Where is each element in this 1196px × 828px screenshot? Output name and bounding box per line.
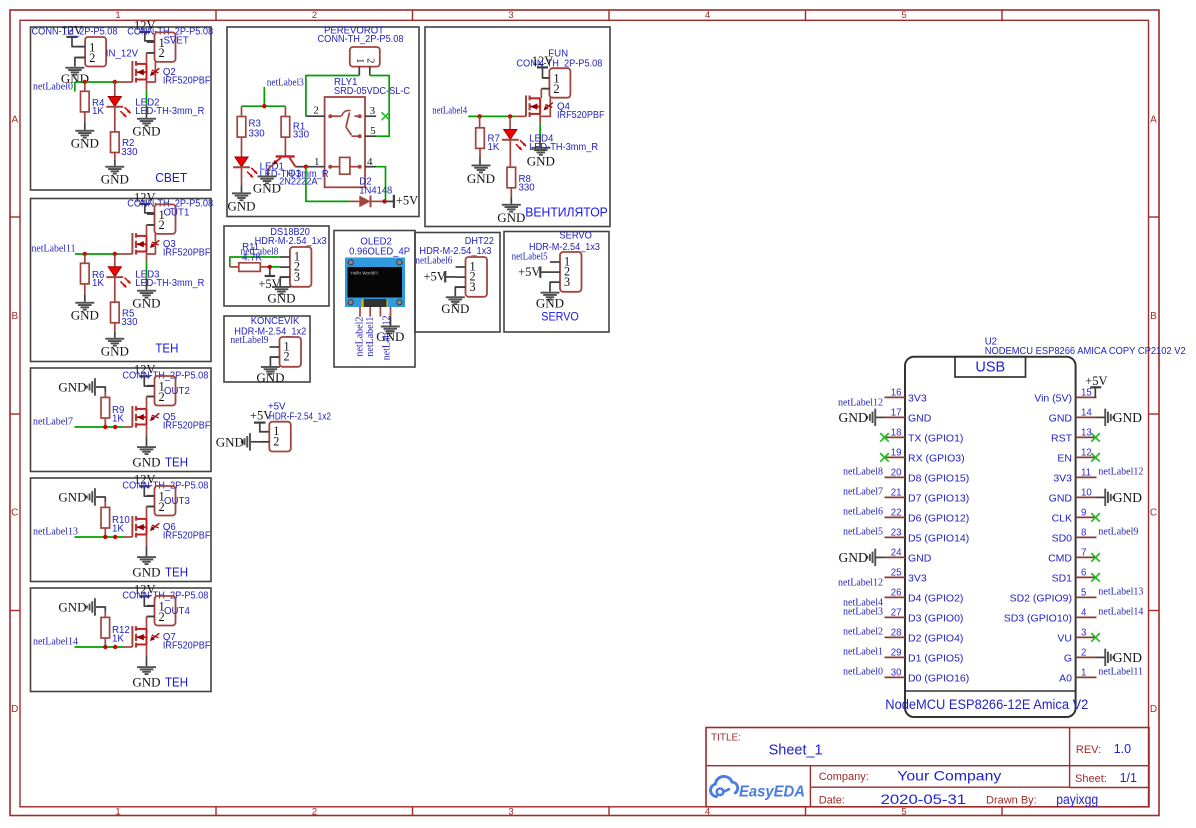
svg-text:D2 (GPIO4): D2 (GPIO4) [908,632,963,644]
svg-text:1K: 1K [112,414,124,425]
title block [706,728,1149,807]
wire netLabel11 gate [75,253,120,255]
svg-text:IRF520PBF: IRF520PBF [163,421,211,432]
ground GND (IN_12V pin2) [75,58,85,67]
svg-text:ТЕН: ТЕН [165,565,188,580]
svg-text:GND: GND [58,600,86,615]
svg-text:GND: GND [376,329,404,344]
svg-text:+5V: +5V [1085,374,1107,388]
wire netLabel13 gate [75,536,125,538]
wire Q5 source to GND [146,425,148,437]
junction wire [113,425,117,429]
svg-text:330: 330 [249,129,266,140]
pin 23 D5 (GPIO14) (U2 left) [885,536,906,538]
svg-text:2: 2 [553,82,559,96]
svg-text:СВЕТ: СВЕТ [155,170,187,185]
svg-text:D: D [11,704,18,715]
svg-text:2: 2 [159,46,165,60]
svg-text:11: 11 [1081,468,1091,479]
wire GND to R10 [96,497,105,502]
no-connect U2 pin 13 [1091,433,1100,442]
transistor Q7 IRF520PBF [131,626,133,647]
svg-text:netLabel9: netLabel9 [231,335,269,346]
wire OLED pin1 [359,307,361,317]
svg-text:netLabel12: netLabel12 [838,398,883,409]
svg-text:1K: 1K [112,634,124,645]
wire R10 to gate [104,528,106,537]
svg-text:5: 5 [901,10,906,21]
resistor R7 1K [479,116,481,127]
block TEN1 border [31,199,212,362]
pin 1 A0 (U2 right) [1076,676,1097,678]
wire pin3 to GND [454,287,456,296]
svg-text:RX (GPIO3): RX (GPIO3) [908,452,965,464]
junction relay pin1 [304,165,308,169]
svg-text:netLabel14: netLabel14 [33,637,78,648]
svg-text:GND: GND [132,295,160,310]
svg-text:25: 25 [891,568,902,579]
svg-text:IRF520PBF: IRF520PBF [163,76,211,87]
transistor Q2 IRF520PBF [131,61,133,82]
svg-text:GND: GND [101,171,129,186]
wire pin2 to Q5 drain [147,396,155,398]
svg-text:GND: GND [132,455,160,470]
block TEN2 border [31,368,212,472]
svg-text:26: 26 [891,588,902,599]
wire OLED pin4 to GND [390,307,392,317]
svg-text:NODEMCU ESP8266 AMICA COPY CP2: NODEMCU ESP8266 AMICA COPY CP2102 V2 [985,346,1186,357]
ground GND (Q2 source) [137,118,156,120]
svg-text:D5 (GPIO14): D5 (GPIO14) [908,532,969,544]
svg-text:1K: 1K [112,524,124,535]
svg-text:4: 4 [705,807,710,818]
svg-text:2: 2 [1081,648,1086,659]
svg-text:8: 8 [1081,528,1086,539]
resistor R12 1K [101,617,110,638]
junction D2 +5V [382,199,386,203]
block DS18B20 border [224,226,329,306]
wire relay pin4 to +5V [376,167,385,202]
svg-text:17: 17 [891,408,902,419]
svg-text:netLabel1: netLabel1 [843,647,883,658]
svg-text:SRD-05VDC-SL-C: SRD-05VDC-SL-C [334,86,410,97]
svg-text:3: 3 [508,10,513,21]
svg-text:GND: GND [908,552,932,564]
svg-text:SD2 (GPIO9): SD2 (GPIO9) [1010,592,1072,604]
svg-text:GND: GND [1049,412,1073,424]
svg-text:GND: GND [839,550,868,565]
ground GND (U2 pin 2) [1097,656,1106,658]
svg-text:ТЕН: ТЕН [165,675,188,690]
svg-text:netLabel12: netLabel12 [1098,467,1143,478]
svg-text:28: 28 [891,628,902,639]
svg-text:OUT3: OUT3 [164,496,190,507]
svg-text:IN_12V: IN_12V [106,49,139,60]
svg-text:SD0: SD0 [1052,532,1073,544]
svg-text:netLabel7: netLabel7 [843,487,883,498]
svg-text:SD1: SD1 [1052,572,1073,584]
led LED3 LED-TH-3mm_R [114,254,116,267]
pin 9 CLK (U2 right) [1076,516,1097,518]
svg-text:GND: GND [527,154,555,169]
ground GND (power header) [249,433,251,451]
wire pin2 to GND (power header) [251,441,269,443]
svg-text:7: 7 [1081,548,1086,559]
no-connect U2 pin 18 [880,433,889,442]
svg-text:VU: VU [1057,632,1072,644]
svg-text:29: 29 [891,648,902,659]
svg-text:20: 20 [891,468,902,479]
no-connect U2 pin 7 [1091,553,1100,562]
junction wire [113,535,117,539]
svg-text:IRF520PBF: IRF520PBF [163,248,211,259]
pin 26 D4 (GPIO2) (U2 left) [885,596,906,598]
svg-text:KONCEVIK: KONCEVIK [251,316,300,327]
svg-text:ТЕН: ТЕН [165,455,188,470]
svg-text:CONN-TH_2P-P5.08: CONN-TH_2P-P5.08 [32,27,118,38]
svg-text:netLabel4: netLabel4 [432,106,467,117]
pin 18 TX (GPIO1) (U2 left) [885,436,906,438]
svg-text:GND: GND [132,123,160,138]
svg-text:HDR-M-2.54_1x3: HDR-M-2.54_1x3 [255,236,327,247]
svg-text:RST: RST [1051,432,1073,444]
svg-text:1.0: 1.0 [1114,742,1131,756]
junction netLabel3 [262,104,266,108]
svg-text:1: 1 [115,807,120,818]
wire R12 to gate [104,638,106,647]
ground GND (KONCEVIK) [261,366,280,368]
junction at LED4 [508,114,512,118]
ground GND (Q4 source) [531,147,550,149]
svg-text:4.7K: 4.7K [242,253,262,264]
led LED2 LED-TH-3mm_R [114,82,116,97]
svg-text:netLabel13: netLabel13 [33,527,78,538]
wire pin2 to GND [270,357,279,366]
wire netLabel7 gate [75,426,125,428]
ground GND (U2 pin 10) [1097,496,1106,498]
wire Q2 source to GND [146,80,148,90]
label USB [955,357,1026,377]
svg-text:GND: GND [267,291,295,306]
svg-text:4: 4 [1081,608,1087,619]
svg-text:IRF520PBF: IRF520PBF [163,641,211,652]
wire OLED pin3 [379,307,381,317]
svg-text:NodeMCU ESP8266-12E Amica V2: NodeMCU ESP8266-12E Amica V2 [885,697,1088,712]
svg-text:R11: R11 [242,242,259,253]
ground GND (R10 top) [94,488,96,506]
wire Q4 source to GND [539,114,541,124]
pin 4 SD3 (GPIO10) (U2 right) [1076,616,1097,618]
svg-text:D: D [1150,704,1157,715]
svg-text:1K: 1K [488,142,500,153]
wire LED1 to GND [241,167,243,186]
pin 11 3V3 (U2 right) [1076,476,1097,478]
svg-text:2: 2 [313,105,319,117]
ground GND (Q7 source) [137,666,156,668]
svg-text:netLabel3: netLabel3 [843,607,883,618]
svg-text:1: 1 [1081,668,1086,679]
svg-text:D4 (GPIO2): D4 (GPIO2) [908,592,963,604]
svg-text:netLabel5: netLabel5 [843,527,883,538]
ground GND (R4) [75,130,94,132]
svg-text:netLabel2: netLabel2 [843,627,883,638]
resistor R10 1K [101,507,110,528]
svg-text:22: 22 [891,508,902,519]
block TEN3 border [31,478,212,582]
pin 8 SD0 (U2 right) [1076,536,1097,538]
power flag +5V (DS18B20) [269,267,271,275]
junction at resistor [103,535,107,539]
svg-text:15: 15 [1081,388,1092,399]
transistor Q4 IRF520PBF [525,95,527,116]
svg-text:OUT2: OUT2 [164,386,190,397]
svg-text:A: A [11,115,18,126]
svg-text:netLabel11: netLabel11 [32,244,76,255]
svg-text:5: 5 [1081,588,1086,599]
ground GND (R6) [75,302,94,304]
resistor R1 330 [284,106,286,116]
wire R9 to gate [104,418,106,427]
svg-text:GND: GND [227,199,255,214]
ground GND (R12 top) [94,598,96,616]
svg-text:14: 14 [1081,408,1092,419]
wire R3 R1 top [242,105,286,107]
pin 3 VU (U2 right) [1076,636,1097,638]
svg-text:SVET: SVET [164,36,189,47]
wire R2 to GND [114,153,116,160]
ground GND (R5) [105,338,124,340]
wire pin2 to Q4 drain [541,88,549,90]
block TEN4 border [31,588,212,692]
ground GND (R7) [472,165,491,167]
resistor R2 330 [114,107,116,132]
ground GND (Q1 emitter) [258,176,277,178]
power flag +5V (U2 Vin) [1094,387,1096,397]
svg-text:TITLE:: TITLE: [711,733,741,744]
wire pin2 to Q2 drain [147,52,155,54]
svg-text:G: G [1064,652,1072,664]
transistor Q5 IRF520PBF [131,406,133,427]
svg-text:SERVO: SERVO [541,312,579,324]
svg-text:23: 23 [891,528,902,539]
svg-text:30: 30 [891,668,902,679]
ground GND (LED1) [232,192,251,194]
wire pin3 to GND [550,282,560,292]
junction at R6 [83,252,87,256]
svg-text:C: C [11,508,18,519]
svg-text:GND: GND [1113,650,1142,665]
svg-text:Hello World!!!: Hello World!!! [351,270,379,275]
svg-text:4: 4 [705,10,710,21]
svg-text:TX (GPIO1): TX (GPIO1) [908,432,963,444]
no-connect relay pin3 [382,112,390,120]
svg-text:GND: GND [132,675,160,690]
svg-text:2: 2 [364,58,375,63]
wire Q3 source to GND [146,252,148,262]
junction at R4 [83,80,87,84]
pin 24 GND (U2 left) [885,556,906,558]
junction +5V DS18B20 [268,265,272,269]
wire GND to R9 [96,387,105,392]
svg-text:ТЕН: ТЕН [155,340,178,355]
svg-text:19: 19 [891,448,902,459]
svg-text:5: 5 [901,807,906,818]
svg-text:CLK: CLK [1052,512,1072,524]
pin 6 SD1 (U2 right) [1076,576,1097,578]
svg-text:330: 330 [121,147,138,158]
no-connect U2 pin 19 [880,453,889,462]
svg-text:A0: A0 [1059,672,1072,684]
svg-text:OUT4: OUT4 [164,606,190,617]
block KONCEVIK border [224,316,310,382]
pin 19 RX (GPIO3) (U2 left) [885,456,906,458]
pin 2 G (U2 right) [1076,656,1097,658]
svg-text:9: 9 [1081,508,1086,519]
svg-text:+5V: +5V [424,269,446,283]
svg-text:GND: GND [839,410,868,425]
svg-text:D1 (GPIO5): D1 (GPIO5) [908,652,963,664]
svg-text:netLabel11: netLabel11 [1098,667,1143,678]
svg-text:netLabel5: netLabel5 [512,252,548,263]
svg-text:+5V: +5V [250,409,272,423]
svg-text:3V3: 3V3 [908,572,927,584]
svg-text:2: 2 [273,434,279,448]
svg-text:27: 27 [891,608,902,619]
svg-text:Sheet_1: Sheet_1 [769,743,823,759]
wire pin2 to Q3 drain [147,224,155,226]
svg-text:330: 330 [121,317,138,328]
svg-text:3V3: 3V3 [908,392,927,404]
svg-text:GND: GND [908,412,932,424]
svg-text:1: 1 [115,10,120,21]
svg-text:netLabel1: netLabel1 [365,317,376,357]
wire R7 to GND [479,148,481,157]
svg-text:18: 18 [891,428,902,439]
svg-text:Your Company: Your Company [897,768,1001,784]
resistor R4 1K [84,82,86,91]
pin 29 D1 (GPIO5) (U2 left) [885,656,906,658]
svg-text:2: 2 [159,218,165,232]
ground GND (R2) [105,166,124,168]
svg-text:netLabel7: netLabel7 [33,417,73,428]
wire conn pin2 to relay pin5 [370,76,389,137]
svg-text:netLabel9: netLabel9 [1098,527,1138,538]
ground GND (SERVO) [541,292,560,294]
pin 30 D0 (GPIO16) (U2 left) [885,676,906,678]
wire pin3 to GND [280,277,290,286]
svg-text:3: 3 [564,275,570,289]
svg-text:1N4148: 1N4148 [359,186,392,197]
svg-text:GND: GND [467,171,495,186]
svg-text:A: A [1150,115,1157,126]
ground GND (OLED) [381,326,400,328]
svg-text:GND: GND [1113,490,1142,505]
svg-text:D3 (GPIO0): D3 (GPIO0) [908,612,963,624]
svg-text:Sheet:: Sheet: [1075,773,1107,785]
wire OLED pin2 [369,307,371,317]
svg-text:SD3 (GPIO10): SD3 (GPIO10) [1004,612,1072,624]
logo EasyEDA [711,776,738,796]
wire pin1 loop to R11 [230,257,280,267]
wire GND to R12 [96,607,105,612]
wire Q1 collector to relay pin1 [295,166,306,168]
svg-text:D6 (GPIO12): D6 (GPIO12) [908,512,969,524]
svg-text:D0 (GPIO16): D0 (GPIO16) [908,672,969,684]
svg-text:B: B [11,311,18,322]
ground GND (U2 pin 24) [875,556,884,558]
svg-text:3: 3 [370,105,376,117]
no-connect U2 pin 12 [1091,453,1100,462]
ground GND (Q5 source) [137,446,156,448]
svg-text:2: 2 [312,807,317,818]
wire Q1 emitter to GND [267,169,269,176]
svg-text:netLabel12: netLabel12 [838,578,883,589]
junction at R7 [477,114,481,118]
svg-text:Drawn By:: Drawn By: [986,794,1037,806]
svg-text:GND: GND [441,301,469,316]
svg-text:24: 24 [891,548,902,559]
wire R4 to GND [84,112,86,122]
transistor Q6 IRF520PBF [131,516,133,537]
svg-text:EasyEDA: EasyEDA [739,784,805,801]
svg-text:C: C [1150,508,1157,519]
junction at LED2 [113,80,117,84]
pin 5 SD2 (GPIO9) (U2 right) [1076,596,1097,598]
ground GND (U2 pin 14) [1097,416,1106,418]
wire R11 to pin2 [270,266,280,268]
transistor Q3 IRF520PBF [131,233,133,254]
svg-text:GND: GND [58,380,86,395]
ground GND (Q3 source) [137,290,156,292]
svg-text:5: 5 [370,125,376,137]
ground GND (U2 pin 17) [875,416,884,418]
net netLabel3 [263,87,265,106]
svg-text:GND: GND [101,343,129,358]
resistor R8 330 [509,140,511,167]
svg-text:2N2222A: 2N2222A [279,177,318,188]
transistor Q1 2N2222A [284,137,286,155]
pin 12 EN (U2 right) [1076,456,1097,458]
svg-text:netLabel3: netLabel3 [267,78,304,89]
svg-text:+5V: +5V [396,194,418,208]
svg-text:GND: GND [71,307,99,322]
svg-text:EN: EN [1057,452,1072,464]
svg-text:GND: GND [256,370,284,385]
svg-text:6: 6 [1081,568,1086,579]
svg-text:0.96OLED_4P: 0.96OLED_4P [349,247,410,258]
wire pin2 to Q7 drain [147,616,155,618]
wire pin2 to Q6 drain [147,506,155,508]
pin 13 RST (U2 right) [1076,436,1097,438]
diode D2 1N4148 [359,196,370,208]
svg-text:3: 3 [294,270,300,284]
svg-text:1K: 1K [92,106,104,117]
svg-text:GND: GND [1049,492,1073,504]
svg-text:D7 (GPIO13): D7 (GPIO13) [908,492,969,504]
svg-text:ВЕНТИЛЯТОР: ВЕНТИЛЯТОР [525,204,608,219]
svg-text:Date:: Date: [819,794,845,806]
block SERVO border [504,232,609,333]
svg-text:3: 3 [470,280,476,294]
svg-text:12: 12 [1081,448,1092,459]
svg-text:Company:: Company: [819,771,869,783]
svg-text:GND: GND [58,490,86,505]
block CBET border [31,27,212,190]
resistor R3 330 [241,106,243,116]
ground GND (R9 top) [94,378,96,396]
no-connect U2 pin 6 [1091,573,1100,582]
svg-text:IRF520PBF: IRF520PBF [557,110,605,121]
